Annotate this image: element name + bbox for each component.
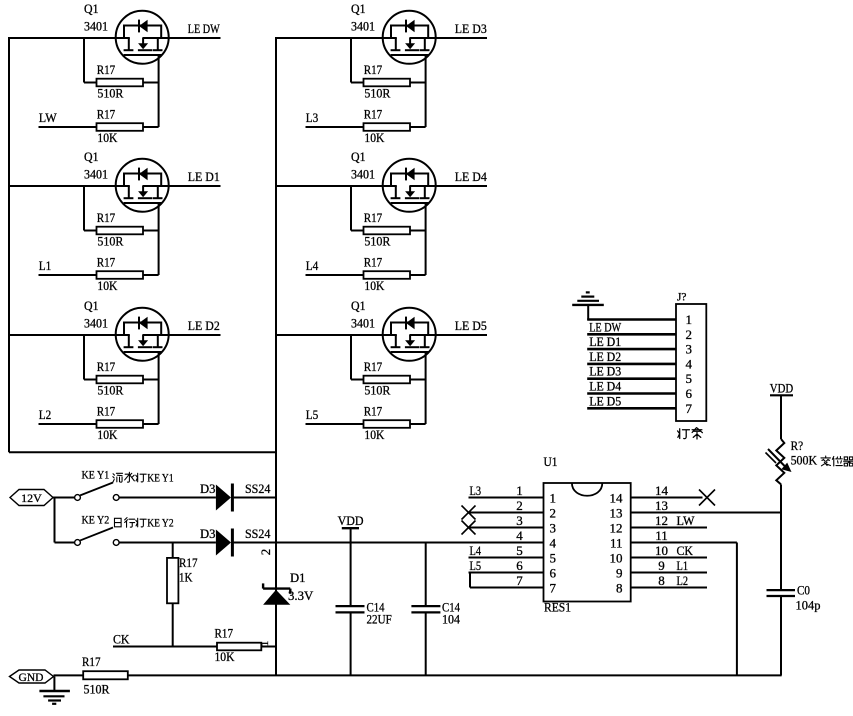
svg-text:12: 12 — [655, 513, 668, 528]
svg-text:LE D5: LE D5 — [455, 318, 487, 333]
svg-text:10K: 10K — [97, 130, 118, 145]
svg-text:LE D2: LE D2 — [589, 349, 621, 364]
svg-text:510R: 510R — [97, 383, 123, 398]
svg-text:RES1: RES1 — [544, 600, 571, 615]
svg-text:3401: 3401 — [84, 167, 108, 182]
svg-text:9: 9 — [616, 566, 623, 581]
svg-text:500K: 500K — [791, 453, 818, 468]
svg-text:11: 11 — [610, 536, 623, 551]
svg-text:7: 7 — [686, 401, 693, 416]
svg-text:SS24: SS24 — [245, 481, 271, 496]
svg-text:Q1: Q1 — [84, 1, 99, 16]
svg-text:Q1: Q1 — [351, 149, 366, 164]
svg-text:5: 5 — [686, 371, 693, 386]
svg-text:13: 13 — [655, 498, 668, 513]
svg-text:L4: L4 — [470, 543, 482, 558]
svg-text:510R: 510R — [97, 86, 123, 101]
svg-text:1: 1 — [550, 491, 557, 506]
svg-text:R17: R17 — [97, 62, 116, 77]
svg-text:3.3V: 3.3V — [288, 588, 314, 603]
svg-text:R17: R17 — [97, 404, 116, 419]
svg-text:R17: R17 — [215, 625, 234, 640]
svg-text:L1: L1 — [677, 558, 689, 573]
svg-text:10K: 10K — [364, 278, 385, 293]
svg-text:LW: LW — [39, 110, 58, 125]
svg-text:U1: U1 — [544, 454, 558, 469]
svg-text:Q1: Q1 — [351, 298, 366, 313]
svg-text:8: 8 — [616, 581, 623, 596]
svg-text:R17: R17 — [97, 255, 116, 270]
svg-text:D3: D3 — [200, 481, 216, 496]
svg-text:10K: 10K — [97, 427, 118, 442]
svg-text:D1: D1 — [290, 570, 306, 585]
svg-text:10K: 10K — [364, 427, 385, 442]
svg-text:LE DW: LE DW — [589, 319, 622, 334]
svg-text:510R: 510R — [97, 234, 123, 249]
svg-text:1: 1 — [516, 483, 523, 498]
svg-text:104p: 104p — [796, 598, 821, 613]
svg-text:R17: R17 — [364, 255, 383, 270]
svg-text:1K: 1K — [179, 570, 193, 585]
svg-text:R17: R17 — [97, 359, 116, 374]
svg-text:L5: L5 — [470, 558, 482, 573]
svg-text:3401: 3401 — [351, 316, 375, 331]
svg-text:510R: 510R — [364, 234, 390, 249]
svg-text:3401: 3401 — [351, 19, 375, 34]
svg-text:R17: R17 — [82, 654, 101, 669]
svg-text:5: 5 — [516, 543, 523, 558]
svg-text:12V: 12V — [21, 491, 42, 505]
svg-text:R17: R17 — [179, 555, 198, 570]
svg-text:L5: L5 — [306, 407, 319, 422]
svg-text:Q1: Q1 — [351, 1, 366, 16]
svg-text:8: 8 — [658, 573, 665, 588]
svg-text:12: 12 — [610, 521, 623, 536]
svg-text:10K: 10K — [215, 649, 236, 664]
svg-text:4: 4 — [516, 528, 523, 543]
svg-text:10K: 10K — [364, 130, 385, 145]
svg-text:6: 6 — [686, 386, 693, 401]
svg-text:3401: 3401 — [84, 19, 108, 34]
svg-text:R17: R17 — [364, 62, 383, 77]
svg-text:510R: 510R — [364, 383, 390, 398]
svg-text:L4: L4 — [306, 258, 319, 273]
svg-text:2: 2 — [686, 327, 693, 342]
svg-text:GND: GND — [19, 672, 44, 684]
svg-text:LE D4: LE D4 — [455, 169, 487, 184]
svg-text:LE D1: LE D1 — [188, 169, 220, 184]
svg-text:LE D5: LE D5 — [589, 393, 621, 408]
svg-text:LE D3: LE D3 — [455, 21, 487, 36]
svg-text:10: 10 — [610, 551, 623, 566]
svg-text:L1: L1 — [39, 258, 52, 273]
svg-text:3: 3 — [686, 342, 693, 357]
svg-text:LE D1: LE D1 — [589, 334, 621, 349]
svg-text:10K: 10K — [97, 278, 118, 293]
svg-text:CK: CK — [113, 631, 130, 646]
svg-text:13: 13 — [610, 506, 623, 521]
svg-text:CK: CK — [677, 543, 694, 558]
svg-text:LE D2: LE D2 — [188, 318, 220, 333]
svg-text:L3: L3 — [306, 110, 319, 125]
svg-text:2: 2 — [550, 506, 557, 521]
svg-text:KE Y1: KE Y1 — [82, 468, 110, 482]
svg-text:R17: R17 — [364, 359, 383, 374]
svg-text:SS24: SS24 — [245, 526, 271, 541]
svg-text:C0: C0 — [797, 583, 810, 598]
svg-text:2: 2 — [258, 549, 273, 556]
svg-text:5: 5 — [550, 551, 557, 566]
svg-text:2: 2 — [516, 498, 523, 513]
svg-text:22UF: 22UF — [367, 612, 392, 627]
svg-text:J?: J? — [677, 290, 687, 304]
svg-text:KE Y2: KE Y2 — [147, 516, 173, 530]
svg-text:L3: L3 — [470, 483, 482, 498]
svg-text:14: 14 — [610, 491, 624, 506]
svg-text:R17: R17 — [364, 210, 383, 225]
svg-text:VDD: VDD — [338, 513, 364, 528]
svg-text:4: 4 — [686, 356, 693, 371]
svg-text:3: 3 — [516, 513, 523, 528]
svg-text:9: 9 — [658, 558, 665, 573]
svg-text:R17: R17 — [97, 210, 116, 225]
svg-text:6: 6 — [550, 566, 557, 581]
svg-text:6: 6 — [516, 558, 523, 573]
svg-text:VDD: VDD — [770, 381, 793, 396]
svg-text:14: 14 — [655, 483, 669, 498]
svg-text:LW: LW — [677, 513, 696, 528]
svg-text:KE Y2: KE Y2 — [82, 513, 110, 527]
svg-text:10: 10 — [655, 543, 668, 558]
svg-text:11: 11 — [655, 528, 668, 543]
svg-text:R17: R17 — [364, 404, 383, 419]
svg-text:7: 7 — [550, 581, 557, 596]
svg-text:3401: 3401 — [351, 167, 375, 182]
svg-text:510R: 510R — [84, 682, 110, 697]
svg-text:LE DW: LE DW — [188, 21, 221, 36]
svg-text:1: 1 — [686, 312, 693, 327]
svg-text:KE Y1: KE Y1 — [147, 471, 173, 485]
svg-text:3: 3 — [550, 521, 557, 536]
svg-text:R?: R? — [791, 438, 804, 453]
svg-text:1: 1 — [259, 641, 271, 647]
svg-text:104: 104 — [442, 612, 460, 627]
svg-text:R17: R17 — [97, 107, 116, 122]
svg-text:L2: L2 — [39, 407, 52, 422]
svg-text:L2: L2 — [677, 573, 689, 588]
svg-text:3401: 3401 — [84, 316, 108, 331]
svg-text:4: 4 — [550, 536, 557, 551]
svg-text:7: 7 — [516, 573, 523, 588]
svg-text:Q1: Q1 — [84, 149, 99, 164]
svg-text:R17: R17 — [364, 107, 383, 122]
svg-text:LE D4: LE D4 — [589, 379, 621, 394]
svg-text:D3: D3 — [200, 526, 216, 541]
svg-text:510R: 510R — [364, 86, 390, 101]
svg-text:LE D3: LE D3 — [589, 364, 621, 379]
svg-text:Q1: Q1 — [84, 298, 99, 313]
